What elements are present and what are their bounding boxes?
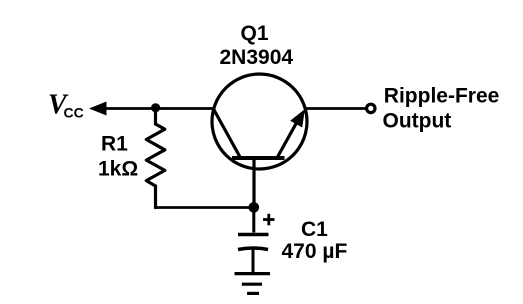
svg-text:Q1: Q1	[241, 22, 269, 45]
svg-text:R1: R1	[101, 133, 128, 156]
svg-text:C1: C1	[301, 218, 328, 241]
wire R1 bottom to base node	[154, 206, 254, 209]
node junction dot (base / R1 / C1)	[249, 202, 260, 213]
svg-text:1kΩ: 1kΩ	[98, 158, 138, 181]
svg-text:470 µF: 470 µF	[282, 240, 348, 263]
node junction dot (Vcc / R1)	[151, 103, 160, 112]
resistor R1	[146, 109, 165, 208]
label C1 value	[282, 218, 348, 263]
wire Vcc to transistor collector (top horizontal)	[101, 107, 214, 110]
transistor Q1 base stem	[252, 158, 255, 208]
label R1 value	[98, 133, 138, 181]
capacitor C1	[238, 212, 269, 272]
output terminal open circle	[367, 104, 375, 112]
ground	[235, 274, 271, 294]
transistor Q1 emitter lead with arrow	[278, 109, 306, 157]
wire emitter to output terminal	[306, 107, 367, 110]
transistor Q1 collector lead	[214, 109, 241, 157]
label Ripple-Free Output	[383, 84, 500, 132]
Vcc arrowhead	[89, 102, 107, 116]
svg-text:Ripple-Free: Ripple-Free	[384, 84, 500, 107]
transistor Q1 circle	[212, 74, 307, 169]
transistor Q1 base bar	[232, 156, 285, 160]
node Vcc label	[48, 90, 84, 121]
capacitor C1 plus sign	[263, 214, 275, 226]
svg-text:Output: Output	[383, 109, 452, 132]
svg-text:CC: CC	[64, 105, 84, 121]
svg-text:2N3904: 2N3904	[220, 46, 294, 69]
